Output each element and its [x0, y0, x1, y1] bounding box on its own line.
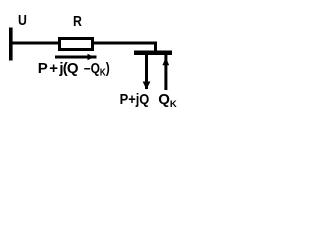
svg-text:U: U: [18, 12, 27, 28]
svg-text:P+jQ: P+jQ: [120, 90, 150, 107]
svg-text:R: R: [73, 13, 82, 29]
svg-text:P + j(Q: P + j(Q: [38, 60, 79, 77]
svg-text:QK: QK: [158, 91, 177, 110]
svg-text:–QK): –QK): [84, 60, 110, 78]
